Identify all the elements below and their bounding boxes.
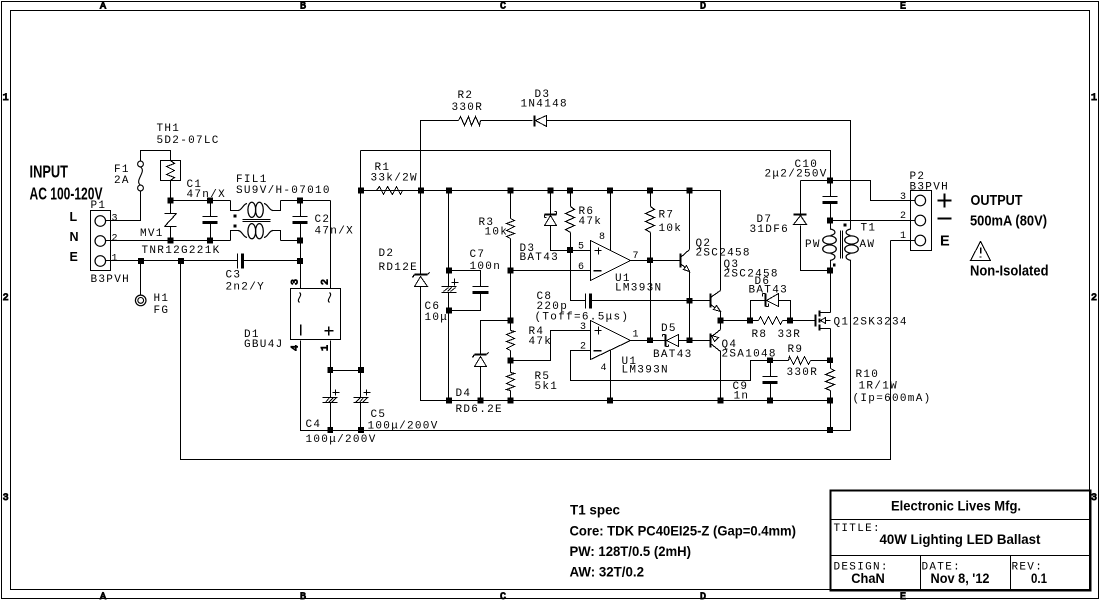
label BAT43 mid — [520, 252, 560, 264]
label Electronic Lives Mfg. — [891, 498, 1021, 514]
border top label C — [500, 2, 506, 13]
svg-text:D: D — [700, 592, 706, 600]
wire C8 right — [591, 300, 691, 302]
resistor R7 — [646, 207, 655, 233]
svg-text:B3PVH: B3PVH — [91, 274, 131, 286]
connector P2 pin3 circle — [915, 195, 926, 206]
wire R3 top lead — [510, 191, 512, 219]
label Q2 type 2SC2458 — [696, 248, 751, 260]
title block divider 2 — [831, 555, 1090, 557]
svg-text:2: 2 — [3, 293, 9, 304]
MOSFET Q1 2SK3234 — [816, 311, 831, 331]
svg-text:47k: 47k — [529, 336, 553, 348]
wire L row y200 — [171, 200, 231, 202]
wire D3 to AW top — [547, 121, 851, 229]
label Q1 type 2SK3234 — [853, 317, 908, 329]
label D1 — [244, 329, 260, 341]
thermistor TH1 — [161, 161, 181, 181]
wire C7 bottom — [449, 293, 481, 311]
svg-text:2: 2 — [900, 211, 907, 222]
wire bridge pin3 drop — [300, 241, 302, 289]
diode D3 1N4148 — [535, 116, 547, 127]
wire C6 upper — [448, 191, 450, 271]
diode D7 31DF6 — [794, 215, 807, 225]
border top label B — [300, 2, 306, 13]
label AC 100-120V — [30, 184, 103, 204]
svg-text:6: 6 — [578, 262, 585, 273]
transistor Q3 2SC2458 — [711, 291, 721, 312]
label pin 7 — [633, 251, 640, 262]
wire D5 right — [679, 340, 691, 342]
transistor Q4 2SA1048 — [711, 330, 721, 352]
svg-text:33R: 33R — [778, 329, 802, 341]
svg-text:R2: R2 — [458, 90, 474, 102]
svg-text:A: A — [100, 2, 106, 13]
label C3 value 2n2/Y — [226, 282, 266, 294]
label pin 2 — [580, 342, 587, 353]
wire to P2 pin3 — [831, 181, 915, 201]
border right label 3 — [1091, 493, 1097, 504]
schottky diode D6 BAT43 — [763, 294, 779, 307]
label D3 mid — [520, 243, 536, 255]
node pin5 node — [567, 247, 573, 253]
wire D6 left — [751, 301, 765, 321]
svg-text:B: B — [300, 592, 306, 600]
label Core spec — [570, 523, 797, 539]
title block divider 1 — [831, 519, 1090, 521]
wire R7 bottom to outputs — [650, 233, 652, 341]
common-mode choke FIL1 — [231, 201, 281, 241]
svg-text:(Ip=600mA): (Ip=600mA) — [853, 393, 932, 405]
node R3 bottom pin6 — [508, 268, 514, 274]
svg-text:INPUT: INPUT — [30, 162, 69, 182]
node Q2e C8 — [687, 298, 693, 304]
pin number 1 P2 — [900, 231, 907, 242]
pin number 1 P1 — [112, 254, 119, 265]
svg-text:BAT43: BAT43 — [749, 285, 789, 297]
label C10 value — [765, 169, 828, 181]
node C5 top — [358, 367, 364, 373]
label E output — [940, 234, 950, 250]
svg-text:E: E — [900, 592, 906, 600]
node earth bus tap — [178, 258, 184, 264]
label 5D2-07LC — [157, 135, 220, 147]
svg-text:3: 3 — [112, 214, 119, 225]
wire C7 top — [449, 271, 481, 287]
label LM393N a — [615, 283, 662, 295]
resistor R5 — [507, 373, 515, 391]
label ChaN — [851, 570, 885, 586]
label R10 note Ip — [853, 393, 932, 405]
label OUTPUT — [971, 193, 1023, 209]
wire Q3 base — [690, 300, 711, 302]
svg-text:BAT43: BAT43 — [520, 252, 560, 264]
label R9 — [788, 344, 804, 356]
svg-text:5k1: 5k1 — [535, 381, 559, 393]
resistor R9 — [789, 357, 811, 365]
wire HV riser x361 — [360, 151, 362, 371]
node C4 bottom — [328, 427, 334, 433]
node R10 rail430 — [827, 427, 833, 433]
title block column divider 2 — [1010, 556, 1012, 590]
title block frame — [831, 491, 1091, 591]
svg-text:Non-Isolated: Non-Isolated — [970, 264, 1049, 280]
svg-text:C2: C2 — [315, 214, 331, 226]
wire D2 column lower — [421, 287, 831, 401]
label C5 value — [368, 421, 439, 433]
wire D6 right — [779, 301, 791, 321]
label R7 — [659, 210, 675, 222]
wire FIL1 top right to C2 — [281, 200, 331, 202]
op-amp U1 comparator A — [591, 241, 631, 281]
connector P1 pin3 circle — [95, 216, 106, 227]
label C1 — [187, 179, 203, 191]
svg-text:1n: 1n — [734, 391, 750, 403]
label R4 — [529, 326, 545, 338]
label REV: — [1012, 562, 1044, 574]
wire D4 bottom — [480, 367, 482, 401]
border bottom label D — [700, 592, 706, 600]
node H1 tap — [138, 258, 144, 264]
wire R5 bottom — [510, 391, 512, 401]
svg-text:N: N — [70, 230, 79, 244]
label C4 value — [306, 434, 377, 446]
svg-text:2μ2/250V: 2μ2/250V — [765, 169, 828, 181]
node TH1-MV1 — [168, 198, 174, 204]
node R8 right — [787, 318, 793, 324]
label C7 — [470, 249, 486, 261]
wire D3b top lead — [550, 191, 552, 215]
border top label D — [700, 2, 706, 13]
svg-text:3: 3 — [291, 279, 302, 285]
svg-text:100μ/200V: 100μ/200V — [306, 434, 377, 446]
label RD6.2E — [456, 404, 503, 416]
wire Q4 base — [690, 340, 711, 342]
label R3 value 10k — [485, 227, 509, 239]
label D5 — [661, 323, 677, 335]
svg-text:D5: D5 — [661, 323, 677, 335]
svg-text:500mA (80V): 500mA (80V) — [970, 214, 1047, 230]
svg-text:2SC2458: 2SC2458 — [696, 248, 751, 260]
border right label 1 — [1091, 93, 1097, 104]
wire R7 top lead — [650, 191, 652, 207]
node PW top — [827, 218, 833, 224]
label C8 note Toff — [535, 312, 630, 324]
wire pin5 row — [571, 250, 591, 252]
label INPUT — [30, 162, 69, 182]
svg-text:AW: AW — [860, 239, 876, 251]
svg-text:Q1: Q1 — [834, 317, 850, 329]
svg-text:5D2-07LC: 5D2-07LC — [157, 135, 220, 147]
node R3 top — [508, 188, 514, 194]
svg-text:FG: FG — [154, 305, 170, 317]
svg-text:0.1: 0.1 — [1031, 570, 1047, 586]
label R1 — [375, 162, 391, 174]
svg-text:31DF6: 31DF6 — [750, 224, 790, 236]
label FIL1 — [236, 174, 268, 186]
svg-text:10k: 10k — [659, 223, 683, 235]
border bottom label C — [500, 592, 506, 600]
node D4 rail — [478, 398, 484, 404]
label TH1 — [157, 123, 181, 135]
wire emitters to R8 — [721, 320, 759, 322]
wire R2 to D3 — [481, 120, 533, 122]
label F1 — [114, 164, 130, 176]
wire R4 links — [510, 271, 512, 331]
svg-text:8: 8 — [599, 232, 606, 243]
node R8 left — [747, 318, 753, 324]
varistor MV1 — [165, 201, 177, 241]
label TNR12G221K — [142, 245, 221, 257]
node R4 bottom — [508, 358, 514, 364]
svg-text:C: C — [500, 2, 506, 13]
wire U1a out — [631, 260, 681, 262]
svg-text:D2: D2 — [379, 248, 395, 260]
label R5 value 5k1 — [535, 381, 559, 393]
label R5 — [535, 371, 551, 383]
svg-text:R8: R8 — [752, 329, 768, 341]
wire R8 to gate — [783, 320, 815, 322]
pin number 3 P1 — [112, 214, 119, 225]
node C5 bottom — [358, 427, 364, 433]
earth bus — [181, 241, 891, 460]
wire R6 bottom lead — [570, 233, 572, 251]
label C6 value 10u — [425, 312, 449, 324]
label P1 — [91, 200, 107, 212]
svg-text:E: E — [900, 2, 906, 13]
wire D4 top — [481, 321, 511, 355]
label TITLE: — [834, 523, 881, 535]
svg-text:C3: C3 — [226, 270, 242, 282]
pin number 2 D1 — [321, 279, 332, 285]
node R5 rail — [508, 398, 514, 404]
svg-text:R7: R7 — [659, 210, 675, 222]
svg-text:AW: 32T/0.2: AW: 32T/0.2 — [570, 564, 645, 580]
svg-text:LM393N: LM393N — [615, 283, 662, 295]
node R45 tap — [508, 358, 514, 364]
label D4 — [456, 388, 472, 400]
svg-text:TITLE:: TITLE: — [834, 523, 881, 535]
capacitor C3 — [238, 254, 301, 269]
svg-text:C4: C4 — [306, 419, 322, 431]
title block column divider 1 — [920, 556, 922, 590]
svg-text:2: 2 — [580, 342, 587, 353]
label GBU4J — [244, 339, 284, 351]
zener diode D4 RD6.2E — [473, 353, 489, 367]
wire Q2 collector — [689, 191, 691, 250]
label T1 spec — [570, 502, 620, 518]
label Q2 — [696, 238, 712, 250]
svg-text:2: 2 — [112, 234, 119, 245]
svg-text:ChaN: ChaN — [851, 570, 885, 586]
wire H1 drop — [140, 261, 142, 296]
label pin 3 — [580, 322, 587, 333]
wire R4 R5 mid — [510, 351, 512, 373]
svg-text:1: 1 — [321, 345, 332, 351]
label R2 value 330R — [452, 102, 484, 114]
label 31DF6 — [750, 224, 790, 236]
svg-text:10k: 10k — [485, 227, 509, 239]
label PW spec — [570, 543, 692, 559]
label P2 — [910, 171, 926, 183]
border right label 2 — [1091, 293, 1097, 304]
label H1 — [154, 293, 170, 305]
node C1 bottom — [207, 238, 213, 244]
label pin 4 — [601, 363, 608, 374]
node R9 right — [827, 358, 833, 364]
svg-text:H1: H1 — [154, 293, 170, 305]
svg-text:3: 3 — [900, 192, 907, 203]
label T1 — [861, 223, 877, 235]
label U1b — [622, 356, 638, 368]
wire Q2 emitter drop — [689, 271, 691, 341]
svg-text:47n/X: 47n/X — [187, 189, 227, 201]
svg-text:E: E — [70, 250, 78, 264]
label BAT43 D5 — [653, 349, 693, 361]
svg-text:RD6.2E: RD6.2E — [456, 404, 503, 416]
transformer T1 — [823, 221, 859, 271]
label R2 — [458, 90, 474, 102]
label D7 — [757, 214, 773, 226]
schottky diode D3 BAT43 — [545, 212, 557, 226]
label 1N4148 — [521, 99, 568, 111]
svg-text:B: B — [300, 2, 306, 13]
svg-text:2SK3234: 2SK3234 — [853, 317, 908, 329]
svg-text:MV1: MV1 — [140, 228, 164, 240]
resistor R1 — [377, 187, 403, 195]
node C6 rail — [446, 398, 452, 404]
warning triangle — [971, 242, 991, 261]
op-amp U1 comparator B — [591, 321, 631, 360]
node pin8 rail — [607, 188, 613, 194]
label C2 — [315, 214, 331, 226]
wire R10 bottom lead — [830, 391, 832, 431]
resistor R3 — [507, 219, 515, 239]
svg-text:SU9V/H-07010: SU9V/H-07010 — [236, 185, 331, 197]
label AW spec — [570, 564, 645, 580]
label Q3 — [724, 259, 740, 271]
svg-text:TNR12G221K: TNR12G221K — [142, 245, 221, 257]
wire bridge pin4 to neg rail — [301, 341, 331, 431]
svg-text:E: E — [940, 234, 950, 250]
svg-text:L: L — [70, 210, 78, 224]
svg-text:1R/1W: 1R/1W — [859, 381, 899, 393]
svg-text:A: A — [100, 592, 106, 600]
node Q4c rail — [718, 398, 724, 404]
wire pin3 jog — [511, 331, 591, 361]
wire U1b out — [631, 340, 651, 342]
wire P1 pin1 row y261 — [106, 260, 238, 262]
transistor Q2 2SC2458 — [681, 250, 690, 272]
label D6 — [755, 276, 771, 288]
svg-text:47k: 47k — [579, 216, 603, 228]
pin number 2 P1 — [112, 234, 119, 245]
svg-text:Electronic Lives Mfg.: Electronic Lives Mfg. — [891, 498, 1021, 514]
wire Q4 collector drop — [720, 351, 722, 401]
wire FIL1 bottom right to C2 bottom — [281, 240, 301, 242]
label pin 5 — [578, 242, 585, 253]
label R4 value 47k — [529, 336, 553, 348]
label D3 top — [535, 89, 551, 101]
wire D3b bottom — [551, 226, 571, 251]
capacitor C5 — [354, 371, 371, 431]
svg-text:47n/X: 47n/X — [315, 226, 355, 238]
node C3 right — [297, 258, 303, 264]
wire D7 cathode lead — [800, 181, 802, 214]
wire bridge pin1 to plus node — [330, 341, 332, 371]
capacitor C1 — [203, 201, 218, 241]
svg-text:100n: 100n — [470, 261, 502, 273]
label 40W Lighting LED Ballast — [880, 531, 1041, 547]
capacitor C4 — [323, 371, 340, 431]
label C7 value 100n — [470, 261, 502, 273]
label DATE: — [922, 562, 962, 574]
resistor R8 — [759, 317, 783, 325]
label R8 value 33R — [778, 329, 802, 341]
label R8 — [752, 329, 768, 341]
svg-text:330R: 330R — [787, 367, 819, 379]
label R1 value 33k/2W — [371, 173, 418, 185]
label 0.1 — [1031, 570, 1047, 586]
node C4 top — [328, 367, 334, 373]
svg-text:3: 3 — [580, 322, 587, 333]
svg-text:2n2/Y: 2n2/Y — [226, 282, 266, 294]
label C3 — [226, 270, 242, 282]
label Nov 8 12 — [931, 570, 990, 586]
svg-text:D4: D4 — [456, 388, 472, 400]
border bottom label A — [100, 592, 106, 600]
node C2 bottom — [297, 238, 303, 244]
capacitor C7 — [473, 287, 489, 293]
label B3PVH P1 — [91, 274, 131, 286]
wire bridge pin2 drop — [330, 201, 332, 289]
svg-text:R9: R9 — [788, 344, 804, 356]
connector P1 pin1 circle — [95, 256, 106, 267]
node C2 top — [297, 198, 303, 204]
wire P1 pin2 row y240 — [106, 240, 231, 242]
svg-text:1: 1 — [3, 93, 9, 104]
node R6 top — [567, 188, 573, 194]
svg-text:D: D — [700, 2, 706, 13]
border left label 1 — [3, 93, 9, 104]
svg-text:3: 3 — [3, 493, 9, 504]
svg-text:330R: 330R — [452, 102, 484, 114]
label Q1 — [834, 317, 850, 329]
border left label 2 — [3, 293, 9, 304]
svg-text:4: 4 — [291, 345, 302, 351]
connector P2 box — [911, 191, 932, 251]
svg-text:C: C — [500, 592, 506, 600]
node Q4 base node — [687, 338, 693, 344]
chassis terminal H1 — [135, 295, 146, 306]
node HV C10 top — [827, 178, 833, 184]
node C7 bottom node — [446, 308, 452, 314]
wire HV node to D7 — [801, 180, 831, 182]
VCC rail y190 — [361, 191, 721, 291]
svg-text:PW: 128T/0.5 (2mH): PW: 128T/0.5 (2mH) — [570, 543, 692, 559]
label AW — [860, 239, 876, 251]
label D2 — [379, 248, 395, 260]
border bottom label E — [900, 592, 906, 600]
svg-text:P1: P1 — [91, 200, 107, 212]
svg-text:LM393N: LM393N — [622, 365, 669, 377]
wire Q3 emitter drop — [720, 312, 722, 321]
pin number 2 P2 — [900, 211, 907, 222]
node emitters join — [718, 318, 724, 324]
label C5 — [371, 409, 387, 421]
node pin4 rail — [607, 398, 613, 404]
wire R9 row — [771, 360, 831, 362]
